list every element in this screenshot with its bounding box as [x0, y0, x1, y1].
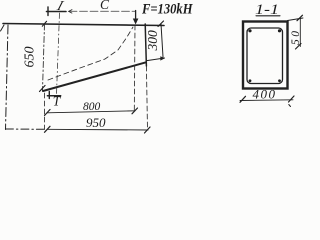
svg-text:300: 300: [145, 30, 160, 52]
svg-text:650: 650: [23, 47, 38, 68]
svg-text:1-1: 1-1: [255, 2, 279, 18]
svg-text:F=130kH: F=130kH: [141, 1, 193, 17]
svg-text:800: 800: [83, 101, 101, 113]
svg-text:50: 50: [290, 29, 302, 46]
svg-text:950: 950: [86, 115, 106, 130]
svg-text:400: 400: [253, 87, 277, 102]
svg-text:C: C: [100, 0, 110, 12]
